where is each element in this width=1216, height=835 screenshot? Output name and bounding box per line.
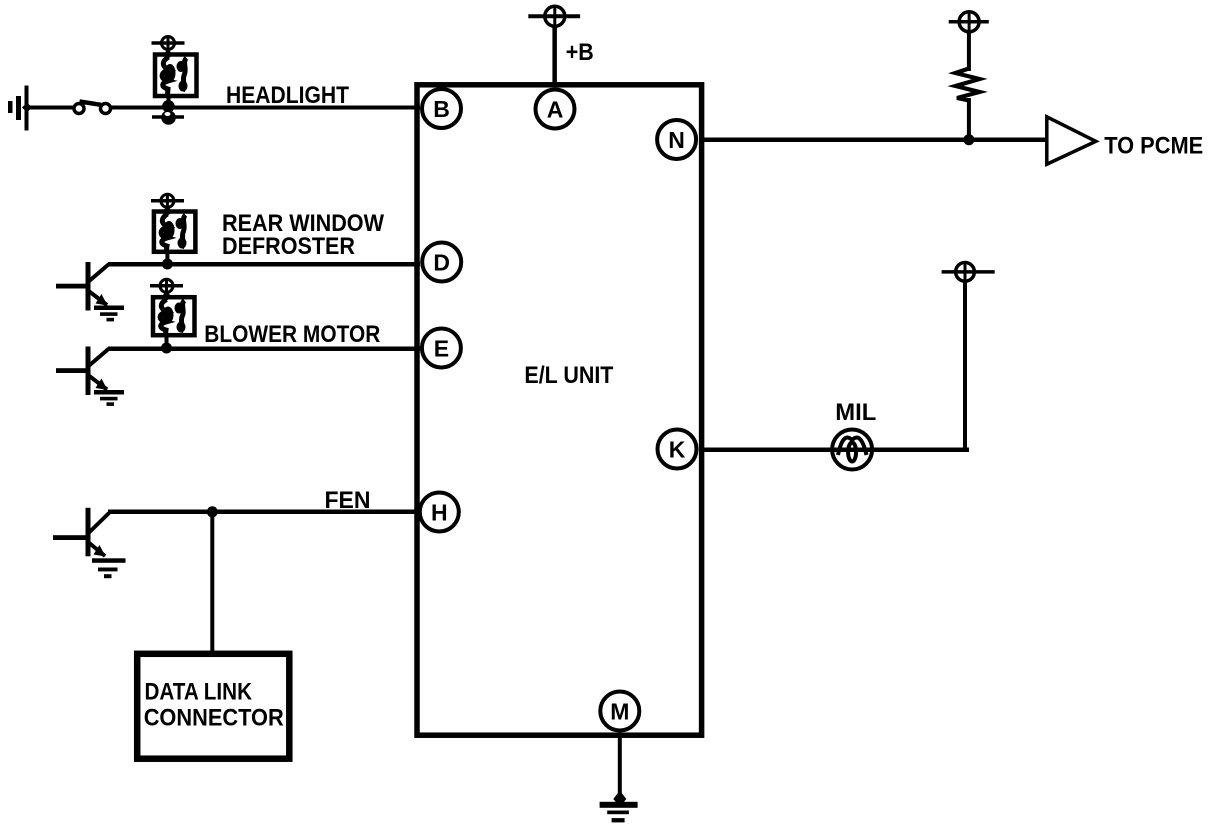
- relay K1 coil: [162, 57, 169, 94]
- svg-text:CONNECTOR: CONNECTOR: [144, 705, 284, 732]
- terminal H: [420, 493, 459, 532]
- relay K3 box (blower motor relay): [153, 297, 195, 335]
- relay K2 coil: [161, 214, 168, 250]
- terminal B: [422, 89, 461, 128]
- svg-text:K: K: [669, 436, 686, 462]
- terminal K: [658, 430, 697, 469]
- terminal E: [422, 329, 461, 368]
- svg-text:N: N: [668, 127, 685, 153]
- wire Q3 to terminal H (FEN): [108, 510, 420, 515]
- wire +B to terminal A: [552, 26, 557, 86]
- relay K1 lower lead + junction on headlight wire: [167, 94, 171, 108]
- svg-text:FEN: FEN: [325, 487, 371, 514]
- terminal M: [600, 692, 639, 731]
- battery B+ (far left): [8, 86, 32, 131]
- svg-text:B: B: [433, 96, 450, 122]
- wire junction to data link connector: [210, 512, 214, 652]
- terminal D: [422, 243, 461, 282]
- +B power symbol: [528, 6, 580, 26]
- svg-text:MIL: MIL: [835, 399, 876, 426]
- svg-text:M: M: [610, 698, 629, 724]
- svg-text:A: A: [547, 96, 564, 122]
- wire switch to terminal B: [110, 106, 420, 110]
- relay K1 box (headlight relay): [155, 55, 197, 97]
- relay K2 power symbol (above defroster relay): [151, 194, 184, 216]
- relay K3 power symbol (above blower relay): [150, 279, 183, 301]
- relay K3 contact: [181, 301, 185, 333]
- svg-text:TO PCME: TO PCME: [1104, 132, 1203, 159]
- relay K2 contact: [182, 215, 186, 248]
- relay K3 lower lead + junction on wire E: [165, 335, 169, 347]
- wire MIL to power riser: [963, 281, 967, 449]
- relay K1 lower connector symbol: [152, 110, 184, 125]
- svg-text:DATA LINK: DATA LINK: [145, 679, 253, 706]
- switch (headlight switch): [74, 102, 111, 114]
- relay K1 power symbol (above headlight relay): [152, 37, 185, 60]
- resistor upper lead: [967, 31, 971, 71]
- resistor pull-up lead lower: [967, 98, 971, 138]
- transistor Q2 (blower driver): [56, 347, 109, 396]
- terminal N: [657, 120, 696, 159]
- wire Q1 to terminal D: [108, 262, 420, 267]
- transistor Q1 (defroster driver): [56, 262, 109, 311]
- svg-text:D: D: [433, 249, 450, 275]
- relay K2 box (rear window defroster relay): [154, 212, 196, 252]
- data link connector box: [137, 654, 289, 759]
- power symbol (MIL supply): [942, 263, 995, 282]
- wire terminal M to ground: [618, 735, 622, 799]
- svg-text:BLOWER MOTOR: BLOWER MOTOR: [204, 321, 380, 348]
- relay K3 coil: [160, 300, 167, 335]
- wire terminal K to MIL: [701, 448, 969, 453]
- ground (E/L unit M): [600, 802, 638, 823]
- E/L UNIT box: [417, 85, 702, 735]
- ground (Q3 emitter): [92, 558, 126, 578]
- svg-text:HEADLIGHT: HEADLIGHT: [226, 82, 349, 109]
- junction resistor / N wire: [963, 134, 974, 145]
- connector arrow TO PCME: [1047, 117, 1096, 164]
- svg-text:DEFROSTER: DEFROSTER: [222, 233, 355, 260]
- ground (Q2 emitter): [94, 390, 124, 406]
- wire Q2 to terminal E: [108, 347, 420, 352]
- terminal A: [536, 90, 575, 129]
- relay K1 contact: [183, 58, 187, 91]
- junction FEN / data link drop: [207, 506, 218, 517]
- transistor Q3 (FEN driver): [53, 508, 109, 557]
- svg-text:H: H: [431, 499, 448, 525]
- resistor R1: [956, 69, 980, 101]
- svg-text:E: E: [434, 335, 449, 361]
- lamp MIL: [832, 430, 872, 470]
- ground (Q1 emitter): [94, 306, 124, 322]
- power symbol above resistor: [949, 12, 989, 32]
- svg-text:+B: +B: [566, 39, 594, 66]
- wire battery to switch: [26, 106, 74, 110]
- wire terminal N to PCME: [701, 138, 1047, 143]
- relay K2 lower lead + junction on wire D: [165, 251, 169, 263]
- svg-text:E/L UNIT: E/L UNIT: [524, 362, 613, 389]
